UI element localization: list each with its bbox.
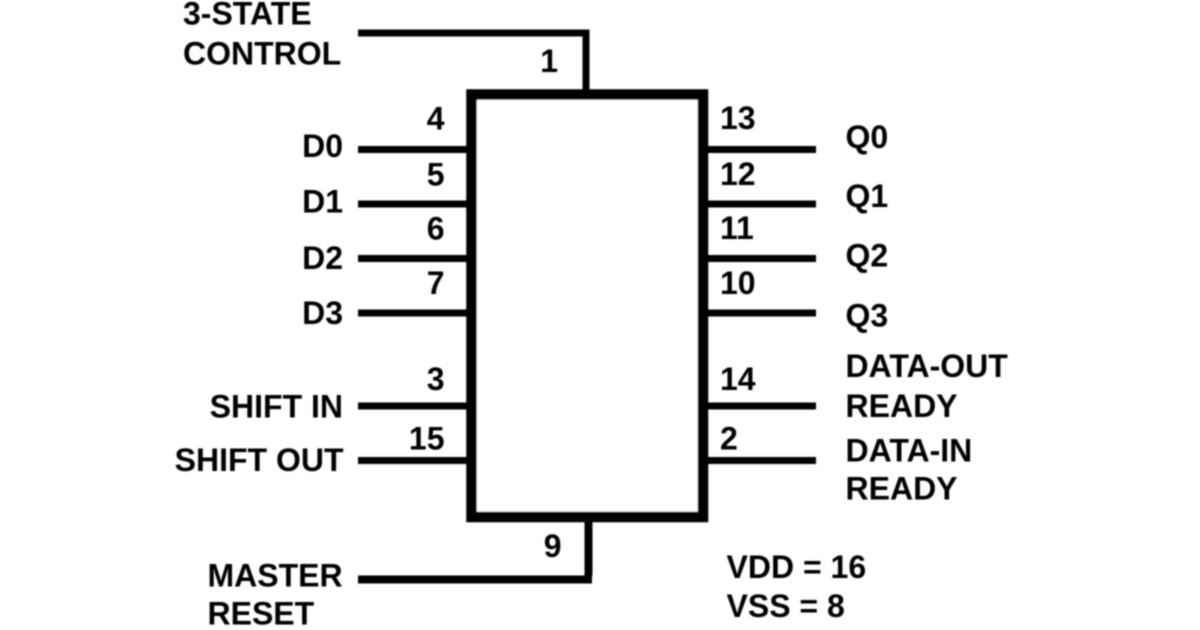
svg-text:SHIFT OUT: SHIFT OUT <box>175 442 344 478</box>
label D1 <box>302 184 343 220</box>
wire D0 (pin 4) <box>358 146 470 153</box>
svg-text:4: 4 <box>427 101 445 137</box>
wire SHIFT OUT (pin 15) <box>358 457 470 464</box>
wire D3 (pin 7) <box>358 310 470 317</box>
wire Q0 (pin 13) <box>704 146 816 153</box>
svg-text:1: 1 <box>540 43 558 79</box>
wire DATA-OUT READY (pin 14) <box>704 403 816 410</box>
pin number 15 <box>409 421 445 457</box>
label Q1 <box>846 178 889 214</box>
svg-text:12: 12 <box>720 156 756 192</box>
pin number 11 <box>720 210 754 246</box>
svg-text:READY: READY <box>846 471 958 507</box>
svg-text:D1: D1 <box>302 184 343 220</box>
pin number 4 <box>427 101 445 137</box>
net VDD = 16 <box>727 549 867 585</box>
label D0 <box>302 128 343 164</box>
pin number 9 <box>544 528 562 564</box>
pin number 1 <box>540 43 558 79</box>
svg-text:5: 5 <box>427 157 445 193</box>
svg-text:SHIFT IN: SHIFT IN <box>210 389 343 425</box>
svg-text:DATA-IN: DATA-IN <box>846 433 973 469</box>
svg-text:Q1: Q1 <box>846 178 889 214</box>
wire Q2 (pin 11) <box>704 255 816 262</box>
wire Q3 (pin 10) <box>704 310 816 317</box>
svg-text:15: 15 <box>409 421 445 457</box>
svg-text:11: 11 <box>720 210 754 246</box>
wire MASTER RESET (pin 9) <box>358 517 592 580</box>
label DATA-IN READY <box>846 433 973 507</box>
svg-text:READY: READY <box>846 388 958 424</box>
label SHIFT OUT <box>175 442 344 478</box>
svg-text:14: 14 <box>720 361 756 397</box>
wire SHIFT IN (pin 3) <box>358 403 470 410</box>
svg-text:Q2: Q2 <box>846 238 889 274</box>
wire D1 (pin 5) <box>358 201 470 208</box>
svg-text:9: 9 <box>544 528 562 564</box>
svg-text:D2: D2 <box>302 240 343 276</box>
wire pin 1 (3-state control) <box>358 33 586 94</box>
pin number 5 <box>427 157 445 193</box>
pin number 12 <box>720 156 756 192</box>
label MASTER RESET <box>208 558 343 630</box>
label DATA-OUT READY <box>846 348 1009 424</box>
IC body U1 <box>472 95 704 518</box>
svg-text:3: 3 <box>427 361 445 397</box>
svg-text:DATA-OUT: DATA-OUT <box>846 348 1009 384</box>
svg-text:CONTROL: CONTROL <box>183 36 341 72</box>
pin number 7 <box>427 265 445 301</box>
pin number 14 <box>720 361 756 397</box>
svg-text:VDD = 16: VDD = 16 <box>727 549 867 585</box>
wire D2 (pin 6) <box>358 255 470 262</box>
pin number 2 <box>720 421 738 457</box>
svg-text:Q3: Q3 <box>846 298 889 334</box>
svg-text:6: 6 <box>427 211 445 247</box>
pin number 13 <box>720 100 756 136</box>
svg-text:Q0: Q0 <box>846 119 889 155</box>
svg-text:MASTER: MASTER <box>208 558 343 594</box>
svg-text:13: 13 <box>720 100 756 136</box>
svg-text:D3: D3 <box>302 295 343 331</box>
svg-text:RESET: RESET <box>208 596 315 630</box>
pin number 6 <box>427 211 445 247</box>
label Q3 <box>846 298 889 334</box>
svg-text:VSS = 8: VSS = 8 <box>727 588 845 624</box>
svg-text:D0: D0 <box>302 128 343 164</box>
label 3-STATE CONTROL <box>183 0 341 72</box>
net VSS = 8 <box>727 588 845 624</box>
svg-text:10: 10 <box>720 265 756 301</box>
svg-text:3-STATE: 3-STATE <box>183 0 312 32</box>
svg-text:7: 7 <box>427 265 445 301</box>
svg-text:2: 2 <box>720 421 738 457</box>
label Q0 <box>846 119 889 155</box>
label SHIFT IN <box>210 389 343 425</box>
wire Q1 (pin 12) <box>704 201 816 208</box>
label D2 <box>302 240 343 276</box>
pin number 3 <box>427 361 445 397</box>
label D3 <box>302 295 343 331</box>
pin number 10 <box>720 265 756 301</box>
wire DATA-IN READY (pin 2) <box>704 457 816 464</box>
label Q2 <box>846 238 889 274</box>
